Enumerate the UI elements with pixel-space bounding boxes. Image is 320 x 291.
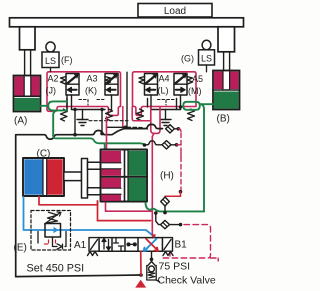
cylinder A: [14, 76, 41, 112]
red elbow to check diamond 3: [165, 192, 181, 197]
junction dot pilot 2: [175, 143, 179, 147]
label A2 (J): [46, 74, 59, 96]
SECTIONS INSERTED BELOW: [10, 4, 244, 127]
relief valve E pilot red dashes: [43, 240, 56, 244]
pilot dashes box1: [79, 100, 105, 106]
svg-text:(E): (E): [14, 243, 27, 254]
junction dot drain A3: [100, 132, 104, 136]
load-sense shuttle LS (F): [42, 42, 59, 68]
poppet valve A2: [61, 74, 80, 96]
svg-text:A3: A3: [87, 74, 98, 84]
right cylinder rod mount: [218, 27, 235, 52]
yoke bar: [82, 159, 88, 199]
svg-text:Check Valve: Check Valve: [158, 274, 216, 286]
pilot dashes box2: [158, 100, 175, 106]
pink line from block bottom: [106, 203, 153, 212]
work line cylinder B port (green funnel): [183, 102, 213, 110]
svg-text:(L): (L): [158, 86, 169, 96]
red link pilot2 to LS drop: [177, 144, 182, 146]
tank symbol box1: [77, 110, 88, 126]
cylinder B: [213, 71, 240, 110]
valve position 4 crossed flows: [144, 239, 159, 251]
label A3 (K): [85, 74, 98, 96]
drain spring under A2: [61, 109, 68, 121]
relief valve E body: [45, 224, 61, 238]
svg-text:A4: A4: [159, 74, 170, 84]
yoke rod lower: [88, 188, 102, 195]
port line valve A5: [177, 95, 183, 110]
drain spring under A4: [137, 109, 144, 121]
manifold block border left+top merging into pilot bus: [16, 124, 163, 276]
red feed arrow into valve: [152, 234, 157, 239]
svg-text:Load: Load: [164, 6, 186, 17]
pilot dashed cross line: [89, 120, 128, 122]
svg-text:(F): (F): [61, 55, 73, 65]
svg-text:(A): (A): [14, 116, 27, 127]
solenoid B1 end: [163, 238, 174, 256]
valve position 1 arrows: [102, 239, 111, 251]
red dashed pilot box right: [163, 225, 218, 261]
port line valve A2: [67, 95, 105, 112]
green internal line to rephasing block: [53, 136, 144, 145]
solenoid A1 end: [88, 238, 100, 256]
red work line from C rod side: [39, 197, 98, 205]
check valve 75 PSI line: [151, 251, 153, 261]
beam: [10, 18, 244, 27]
port line valve A3: [100, 95, 111, 134]
LS pilot stub left: [50, 68, 52, 72]
poppet valve A5: [174, 74, 193, 96]
work line B down leg: [201, 104, 205, 211]
relief valve E adjust arrow: [45, 212, 62, 224]
LS network red dashed vertical: [178, 129, 181, 190]
svg-text:LS: LS: [201, 54, 212, 64]
work line cylinder A port (green funnel): [41, 101, 68, 136]
junction dot green 1: [154, 211, 158, 215]
master cylinder C body: [23, 158, 64, 196]
load box: [138, 4, 212, 18]
left cylinder rod mount: [20, 27, 36, 50]
yoke rod upper: [88, 162, 102, 169]
junction dot drain on border: [139, 273, 143, 277]
red line lower bus: [98, 220, 151, 222]
right cylinder rod: [224, 52, 230, 72]
svg-text:(K): (K): [85, 86, 97, 96]
left cylinder rod: [25, 50, 31, 77]
poppet valve A4: [139, 74, 158, 96]
svg-text:(M): (M): [188, 86, 202, 96]
pilot bus line: [107, 126, 127, 128]
svg-text:(G): (G): [181, 54, 194, 64]
svg-text:(B): (B): [217, 114, 230, 125]
svg-text:Set 450 PSI: Set 450 PSI: [27, 263, 85, 275]
junction dot to LS network: [177, 127, 181, 131]
svg-text:(J): (J): [46, 86, 57, 96]
rephasing cylinder block: [101, 150, 148, 202]
red dash B1 solenoid pilot: [169, 253, 171, 259]
check valve 75 PSI symbol: [147, 262, 160, 282]
junction dot drain: [73, 133, 77, 137]
check valve diamond 3: [161, 197, 170, 213]
junction dot check pilot: [150, 258, 154, 262]
valve position 2 blocked: [114, 238, 124, 251]
svg-text:A5: A5: [192, 74, 203, 84]
green return bus with hop: [146, 203, 205, 211]
pilot bus dashed segment: [127, 127, 148, 129]
valve manifold box 2 (A4/A5): [133, 72, 197, 116]
svg-text:(H): (H): [160, 171, 174, 182]
junction dot line2 start: [143, 143, 147, 147]
drain line to border: [140, 251, 142, 275]
junction dot pilot 4: [179, 223, 183, 227]
pilot drop to check diamond 4: [156, 212, 161, 224]
wire red U loop between banks: [151, 107, 160, 133]
pilot gap line from valve bank: [126, 72, 128, 127]
load-sense shuttle LS (G): [199, 40, 215, 65]
junction dot green 2: [163, 211, 167, 215]
drain line from valve A2: [74, 112, 76, 135]
red solid vertical left of H: [97, 201, 99, 221]
wire red drop box1 inner: [122, 107, 124, 127]
tank symbol box2: [160, 110, 171, 126]
relief valve E dashed enclosure: [31, 211, 71, 251]
valve position 3 motor: [127, 243, 136, 246]
manifold block border bottom: [16, 275, 141, 277]
blue flow arrowhead in relief: [54, 227, 59, 233]
drain spring under A3: [106, 109, 113, 121]
junction dot LS drop: [179, 190, 183, 194]
svg-text:A1: A1: [74, 240, 87, 251]
check valve diamond 1: [166, 125, 179, 133]
drain spring under A5: [188, 109, 195, 121]
pilot line 2 with check valve diamond 2: [145, 141, 177, 149]
port line valve A4: [148, 95, 181, 110]
tank triangle: [135, 280, 146, 288]
cylinder C rod: [64, 172, 82, 181]
svg-text:LS: LS: [45, 56, 56, 66]
relief valve E spring: [47, 212, 58, 223]
junction dot pilot bus: [124, 126, 128, 130]
check valve diamond 4: [161, 220, 181, 228]
label A5 (M): [188, 74, 203, 96]
relief valve E outlet loop with check: [38, 232, 66, 250]
label A4 (L): [158, 74, 170, 96]
svg-text:B1: B1: [175, 240, 188, 251]
svg-text:75 PSI: 75 PSI: [159, 260, 191, 272]
directional valve body: [99, 238, 163, 252]
wire red long drop to valve B1: [152, 133, 154, 237]
valve manifold box 1 (A2/A3): [47, 72, 121, 116]
LS pilot stub right: [206, 65, 208, 72]
poppet valve A3: [105, 74, 118, 96]
svg-text:A2: A2: [48, 74, 59, 84]
wire red drop box2 inner: [132, 107, 151, 121]
blue line from C cap side: [24, 197, 157, 239]
green stub into block top: [104, 143, 106, 149]
red feed into block top: [106, 117, 108, 151]
